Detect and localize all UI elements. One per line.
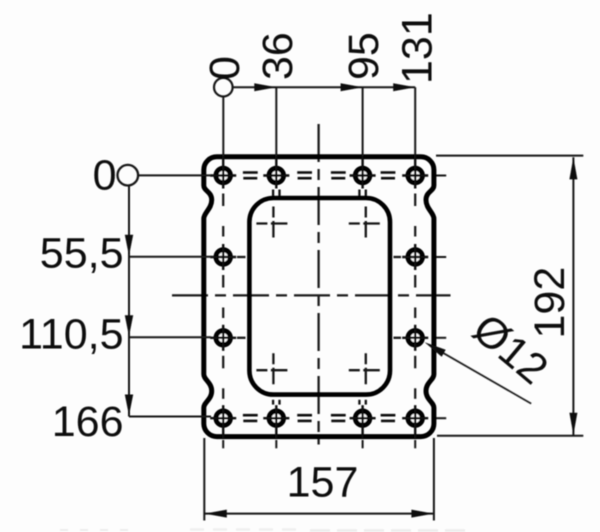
bolt hole H12 (O12) with center cross (402, 405, 428, 438)
right dimension line 192 (572, 157, 574, 435)
svg-text:0: 0 (201, 56, 249, 80)
centerline stubs beyond right flange edge (436, 176, 446, 419)
svg-text:0: 0 (93, 152, 117, 200)
vertical centerline of flange (317, 124, 319, 445)
bottom dimension line 157 (204, 513, 434, 515)
svg-text:166: 166 (52, 398, 124, 446)
bolt hole H10 (O12) with center cross (263, 405, 289, 438)
bolt hole H7 (O12) with center cross (210, 325, 236, 351)
label 0 (left) (93, 152, 117, 200)
svg-text:36: 36 (254, 32, 302, 80)
extension line bottom right (437, 435, 583, 437)
label 0 (top, rotated) (201, 56, 249, 80)
leader line for O12 (429, 345, 531, 404)
faint cut-off print residue at bottom of scan (60, 530, 470, 531)
bolt hole H8 (O12) with center cross (402, 325, 428, 351)
label 157 (287, 459, 359, 507)
bolt hole H3 (O12) with center cross (350, 155, 376, 188)
arrow down (192) (569, 413, 577, 435)
label 36 (rotated) (254, 32, 302, 80)
label 95 (rotated) (340, 32, 388, 80)
top dimension line (233, 86, 416, 88)
top datum origin circle (0) (214, 78, 233, 97)
bottom extension line right (433, 438, 435, 521)
bottom extension line left (203, 438, 205, 521)
leader arrow at hole (425, 342, 446, 357)
bolt hole H1 (O12) with center cross (210, 155, 236, 188)
label 131 (rotated) (394, 12, 442, 84)
horizontal centerline of flange (172, 294, 451, 296)
arrow at 166 (125, 395, 133, 416)
label 55,5 (40, 230, 124, 278)
label 110,5 (19, 311, 123, 359)
arrow at 36 (254, 83, 276, 91)
rectangular window opening (249, 198, 390, 395)
bolt hole H5 (O12) with center cross (210, 244, 236, 270)
arrow at 131 (393, 83, 415, 91)
arrow at 55,5 (125, 235, 133, 256)
left datum origin circle (0) (118, 165, 139, 186)
extension line x=36 (275, 87, 277, 156)
bolt hole H9 (O12) with center cross (210, 405, 236, 438)
centerline dashes below bottom flange edge (223, 440, 415, 448)
extension line y=110,5 (129, 336, 211, 338)
bolt hole H6 (O12) with center cross (402, 244, 428, 270)
left dimension line (128, 185, 130, 416)
vertical centerline dashes, hole columns left/right (223, 194, 415, 399)
arrow left (157) (205, 510, 227, 518)
bolt hole H11 (O12) with center cross (350, 405, 376, 438)
arrow at 110,5 (125, 315, 133, 336)
svg-text:110,5: 110,5 (19, 311, 123, 359)
bolt hole H4 (O12) with center cross (402, 155, 428, 188)
extension line y=0 from origin to flange (138, 174, 211, 176)
label 166 (52, 398, 124, 446)
svg-text:157: 157 (287, 459, 359, 507)
extension line top right (436, 155, 583, 157)
doubled vertical stubs at middle holes near window (273, 190, 366, 405)
svg-text:131: 131 (394, 12, 442, 84)
bolt hole H2 (O12) with center cross (263, 155, 289, 188)
svg-text:95: 95 (340, 32, 388, 80)
svg-text:55,5: 55,5 (40, 230, 124, 278)
extension line y=166 (129, 416, 211, 418)
label 192 (rotated) (526, 267, 574, 339)
arrow at 95 (341, 83, 363, 91)
extension line y=55,5 (129, 256, 211, 258)
flange plate outline (157 x 192) with edge notches (204, 157, 434, 437)
arrow right (157) (411, 510, 433, 518)
extension line from origin down to flange (222, 97, 224, 157)
extension line x=95 (362, 87, 364, 156)
extension line x=131 (414, 87, 416, 155)
doubled centerline dashes ('=') along top and bottom hole rows (243, 173, 396, 421)
arrow up (192) (569, 157, 577, 179)
label O12 (rotated along leader) (464, 305, 557, 394)
radius-center crosses of window corners (256, 207, 379, 385)
svg-text:192: 192 (526, 267, 574, 339)
short centerline dashes inboard of side holes (237, 257, 401, 338)
